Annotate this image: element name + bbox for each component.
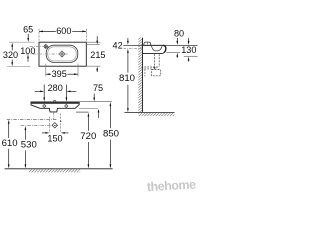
front view: left fixing hole bbox=[43, 104, 46, 107]
plan view: bowl inner contour bbox=[48, 47, 76, 61]
bowl top extension (right) bbox=[87, 44, 100, 46]
side view: trap dashed box bbox=[152, 70, 161, 76]
dim 75: arrowhead bbox=[93, 98, 95, 102]
dim 530: top arrowhead bbox=[25, 126, 27, 130]
side view: rim top line + extensions bbox=[123, 44, 197, 46]
dim 600: right extension line bbox=[85, 29, 87, 42]
side view: tap deck bump bbox=[144, 42, 151, 45]
side view: wall surface line bbox=[142, 38, 144, 113]
side view: pipe junction cross bbox=[153, 66, 156, 69]
plan view: tap hole centerline bbox=[30, 45, 52, 47]
dim 65: arrowhead to top edge bbox=[27, 38, 29, 42]
front band bottom extension (gray) bbox=[79, 108, 98, 110]
dim 80: lower arrowhead bbox=[176, 53, 178, 57]
dim 75: arrow shaft bbox=[93, 94, 95, 100]
front view: basin outline bbox=[31, 102, 79, 112]
dim 100: arrowhead to drain centerline bbox=[27, 54, 29, 58]
dim 320: upper arrowhead bbox=[11, 43, 13, 47]
front view: dark rim band bbox=[31, 102, 79, 104]
dim 810: shaft lower bbox=[127, 85, 129, 110]
front view: overflow/tap mark bbox=[53, 100, 56, 103]
dim 530: shaft lower bbox=[24, 150, 26, 166]
small up arrowhead on upper centerline bbox=[60, 120, 62, 122]
side view: waste pipe dashed bottom bbox=[141, 68, 151, 70]
front view: waste outlet diamond symbol bbox=[52, 123, 57, 128]
plan view: bowl outer contour bbox=[46, 45, 78, 62]
svg-text:75: 75 bbox=[93, 83, 103, 93]
svg-text:850: 850 bbox=[103, 128, 119, 139]
dim 42: upper arrowhead bbox=[127, 41, 129, 45]
dim 600: left arrowhead bbox=[39, 31, 43, 33]
dim 280: right down arrowhead at rim bbox=[66, 98, 68, 102]
small up arrowhead at band ext level bbox=[98, 109, 100, 113]
dim 320: lower arrowhead bbox=[11, 62, 13, 66]
dim 280: left down arrowhead at rim bbox=[43, 98, 45, 102]
side view: elbow dashed vertical bbox=[144, 69, 146, 76]
dim 395: line left segment bbox=[46, 73, 51, 75]
svg-text:530: 530 bbox=[21, 140, 37, 151]
svg-text:320: 320 bbox=[3, 50, 18, 60]
side view: fixing axis centerline bbox=[123, 48, 142, 50]
front view: lower centerline (530 level) bbox=[21, 125, 59, 127]
dim 150: right arrowhead bbox=[61, 132, 65, 134]
front view: floor line bbox=[5, 168, 113, 170]
plan bottom edge extension (right) bbox=[86, 65, 100, 67]
dim 530: shaft upper bbox=[24, 129, 26, 140]
dim 150: left outside shaft bbox=[42, 132, 47, 134]
side view: bowl inner profile bbox=[151, 45, 162, 51]
dim 130: lower arrowhead bbox=[188, 57, 190, 61]
dim 850: shaft upper bbox=[109, 105, 111, 129]
dim 530: bottom arrowhead bbox=[25, 164, 27, 168]
plan top edge extension (right) bbox=[86, 41, 100, 43]
svg-text:600: 600 bbox=[56, 26, 71, 36]
dim 720: shaft lower bbox=[87, 142, 89, 166]
dim 80: upper shaft bbox=[176, 38, 178, 43]
side view: waste pipe dashed top bbox=[141, 66, 159, 68]
side view: tap hole mark bbox=[146, 43, 148, 45]
dim 720: top arrowhead bbox=[88, 113, 90, 117]
side view: thick front rim edge bbox=[163, 45, 166, 52]
svg-text:65: 65 bbox=[23, 24, 33, 34]
svg-text:thehome: thehome bbox=[147, 177, 197, 194]
dim 215: upper arrowhead bbox=[96, 41, 98, 45]
svg-text:280: 280 bbox=[48, 83, 63, 93]
side view: drain tailpipe left dashed line bbox=[154, 54, 156, 69]
plan view: tap hole symbol bbox=[43, 44, 48, 49]
dim 810: bottom arrowhead bbox=[127, 108, 129, 112]
plan view: drain symbol bbox=[59, 51, 66, 58]
dim 280: left extension down to rim bbox=[43, 85, 45, 100]
watermark thehome bbox=[147, 177, 198, 194]
svg-text:80: 80 bbox=[174, 29, 184, 39]
dim 600: right arrowhead bbox=[82, 31, 86, 33]
dim 600: left extension line bbox=[38, 29, 40, 42]
side view: floor hatching bbox=[138, 113, 174, 116]
dim 130: upper shaft bbox=[188, 38, 190, 43]
dim 720: bottom arrowhead bbox=[88, 164, 90, 168]
dim 600: line right segment bbox=[72, 30, 86, 32]
dim 280: right outside shaft bbox=[69, 90, 76, 92]
dim 720: shaft upper bbox=[87, 115, 89, 131]
plan bottom edge extension (left) bbox=[7, 65, 31, 67]
dim 850: top arrowhead bbox=[110, 102, 112, 106]
dim 395: left arrowhead bbox=[46, 73, 50, 75]
dim 215: lower shaft bbox=[96, 69, 98, 72]
dim 42: upper shaft bbox=[127, 38, 129, 43]
dim 42/810: up arrowhead at fixing line bbox=[127, 49, 129, 53]
dim 100: arrow shaft bbox=[27, 57, 29, 62]
svg-text:720: 720 bbox=[80, 131, 96, 142]
dim 810: shaft upper bbox=[127, 51, 129, 72]
side view: 80 reference line bbox=[166, 51, 180, 53]
dim 610: shaft lower bbox=[8, 149, 10, 166]
svg-text:42: 42 bbox=[113, 41, 123, 51]
front boss bottom extension bbox=[76, 111, 89, 113]
dim 320: upper shaft bbox=[11, 46, 13, 51]
dim 65: arrow shaft bbox=[27, 34, 29, 40]
dim 395: right arrowhead bbox=[74, 73, 78, 75]
dim 150: left dashed extension bbox=[49, 117, 51, 133]
dim 215: upper shaft bbox=[96, 36, 98, 42]
dim 280: left arrowhead bbox=[40, 91, 44, 93]
svg-text:215: 215 bbox=[90, 50, 105, 60]
dim 610: shaft upper bbox=[8, 122, 10, 138]
side view: 130 reference line bbox=[184, 55, 198, 57]
dim 280: right extension down to rim bbox=[65, 85, 67, 100]
dim 610: bottom arrowhead bbox=[8, 164, 10, 168]
dim 215: lower arrowhead bbox=[96, 66, 98, 70]
side view: basin profile outline bbox=[143, 45, 166, 53]
dim 395: line right segment bbox=[67, 73, 78, 75]
front view: right fixing hole bbox=[65, 104, 68, 107]
dim 80: upper arrowhead bbox=[176, 41, 178, 45]
front view: upper centerline (610 level) bbox=[7, 118, 58, 120]
svg-text:150: 150 bbox=[47, 134, 62, 144]
dim 600: line left segment bbox=[39, 30, 56, 32]
dim 395: right extension bbox=[77, 64, 79, 77]
front rim top extension to 850 dim bbox=[79, 101, 112, 103]
plan view: basin outer rectangle bbox=[39, 42, 86, 66]
dim 280: left outside shaft bbox=[35, 90, 42, 92]
svg-text:130: 130 bbox=[181, 45, 196, 55]
dim 280: right arrowhead bbox=[66, 91, 70, 93]
side view: floor line bbox=[124, 111, 174, 113]
side view: drain tailpipe right dashed line bbox=[158, 54, 160, 67]
front view: drain axis centerline bbox=[53, 112, 55, 119]
dim 130: lower shaft bbox=[188, 59, 190, 62]
svg-text:395: 395 bbox=[52, 69, 67, 79]
dim 150: right outside shaft bbox=[63, 132, 68, 134]
plan view: drain centerline bbox=[26, 53, 68, 55]
dim 80: lower shaft bbox=[176, 55, 178, 58]
front view: floor hatching bbox=[29, 169, 80, 172]
dim 395: left extension bbox=[45, 64, 47, 77]
dim 850: bottom arrowhead bbox=[110, 164, 112, 168]
plan top edge extension (left) bbox=[9, 41, 35, 43]
side view: wall hatching bbox=[138, 38, 142, 113]
dim 150: left arrowhead bbox=[45, 132, 49, 134]
dim 610: top arrowhead bbox=[8, 120, 10, 124]
small up arrow shaft at band ext bbox=[98, 113, 100, 119]
dim 130: upper arrowhead bbox=[188, 41, 190, 45]
svg-text:100: 100 bbox=[20, 46, 35, 56]
svg-text:610: 610 bbox=[2, 138, 18, 149]
dim 320: lower shaft bbox=[11, 60, 13, 64]
svg-text:810: 810 bbox=[119, 73, 135, 84]
dim 150: right dashed extension bbox=[60, 114, 62, 133]
dim 850: shaft lower bbox=[109, 140, 111, 167]
